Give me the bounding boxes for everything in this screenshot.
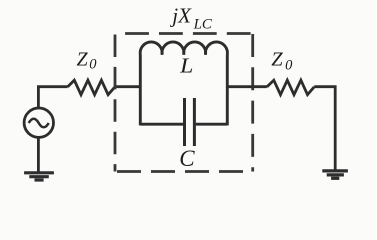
svg-text:L: L [179,54,193,78]
label Z0 (right) [271,49,293,74]
wire resistor to right ground [314,87,335,171]
label Z0 (left) [77,48,98,72]
svg-text:Z: Z [271,49,283,71]
wire right bus to resistor [227,85,267,88]
ac source V1 [24,108,53,137]
wire bottom branch right [196,123,228,126]
svg-text:0: 0 [285,57,293,73]
svg-text:0: 0 [89,57,97,73]
label jX_LC [169,3,213,32]
svg-text:C: C [179,146,195,171]
capacitor C [185,98,195,146]
resistor Z0 (right) [267,80,314,95]
wire source to ground [37,138,40,172]
node right bus [226,55,229,126]
svg-text:jX: jX [169,3,192,27]
svg-text:LC: LC [193,17,213,33]
node left bus [139,55,142,126]
wire resistor to left bus [115,85,140,88]
dashed box jX_LC [115,34,253,172]
inductor L [140,42,227,55]
wire source to main line [38,87,67,108]
ground (right) [322,171,348,178]
svg-text:Z: Z [77,48,89,70]
ground (left) [24,173,54,180]
wire bottom branch left [140,123,183,126]
resistor Z0 (left) [68,80,115,95]
